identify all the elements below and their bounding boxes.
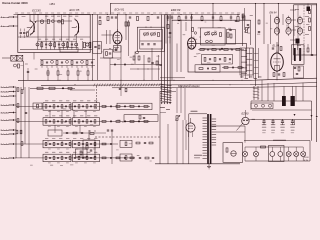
- choke core L2a: [282, 96, 286, 106]
- loudspeaker: [231, 151, 236, 156]
- wire h y101: [251, 100, 312, 102]
- resistor right of T2: [227, 33, 229, 37]
- resistor above EBF89: [192, 28, 197, 35]
- svg-text:Schalter: Schalter: [1, 104, 10, 107]
- wire v x168: [167, 124, 169, 164]
- switch contact unit 2: [286, 16, 291, 26]
- trimmer tuner C2: [52, 20, 55, 23]
- wire v x110: [109, 58, 111, 80]
- wire v x268: [267, 44, 269, 80]
- resistor T2 R: [220, 33, 222, 37]
- lamp La5 (crossed): [301, 147, 306, 161]
- contact strip columns (wave switch): [240, 48, 259, 78]
- potentiometer volume: [244, 27, 250, 33]
- wire band v x29: [28, 87, 30, 158]
- wire v x278.4: [278, 3, 279, 53]
- wire v x160b: [159, 91, 161, 164]
- dark component EM84 base: [296, 39, 300, 51]
- svg-text:Schalter: Schalter: [1, 143, 10, 146]
- wire contact lead: [2, 57, 11, 59]
- inter-row connect wires: [50, 110, 86, 133]
- wire stub contacts: [283, 14, 294, 36]
- wire ECH81 screen riser: [110, 4, 112, 15]
- wire v x186: [185, 22, 187, 31]
- resistor riser R12: [107, 16, 109, 20]
- wire HT right drop: [316, 4, 318, 143]
- tube V4 EL84: [271, 51, 284, 72]
- wire h y69: [130, 68, 160, 71]
- wire out h1: [211, 125, 245, 127]
- output transformer windings: [293, 48, 303, 61]
- resistor mains R18: [261, 146, 266, 148]
- input terminal label 'Schalter 10': [1, 133, 16, 136]
- wire switch col a: [297, 5, 299, 55]
- wire out h2: [216, 131, 245, 133]
- svg-text:Antenne: Antenne: [0, 25, 10, 28]
- wire v x186: [185, 120, 187, 150]
- wire mains feed h: [244, 140, 310, 142]
- resistor R15: [243, 16, 245, 20]
- junction dots top bus: [37, 14, 238, 15]
- wire v x183: [182, 120, 184, 164]
- wire out v x245: [244, 126, 246, 143]
- junction dots HT rail: [110, 3, 279, 4]
- component row AF top: [198, 49, 244, 51]
- capacitor T1 Cc: [153, 44, 155, 45]
- smudges below row4: [30, 165, 73, 167]
- wire lamps bottom rail: [245, 141, 310, 161]
- wire h y48.7: [200, 48, 240, 49]
- svg-text:Schalter: Schalter: [1, 133, 10, 136]
- resistor tuner R2: [62, 20, 64, 24]
- tuned circuit alignment row FM box: [20, 39, 92, 50]
- resistor right margin b: [309, 27, 311, 31]
- svg-text:ECH 81: ECH 81: [115, 8, 125, 12]
- AFC arrow across triode: [27, 21, 37, 34]
- band switch row 4 (TA): [16, 152, 135, 163]
- wire v x270.7: [270, 15, 272, 45]
- box FM tuner unit: [18, 15, 90, 53]
- input terminal label 'Schalter 3': [1, 86, 16, 89]
- wire tuner v x54: [53, 15, 55, 42]
- wire tuner v x38: [37, 15, 39, 42]
- capacitor C13: [109, 48, 117, 51]
- wire T1 mid: [140, 40, 162, 42]
- wire tuner h y21: [36, 20, 72, 22]
- transformer T3 core: [207, 114, 211, 164]
- fuse F2: [253, 147, 258, 161]
- volume control cluster: [83, 130, 95, 158]
- input terminal label 'Schalter 5': [1, 95, 16, 98]
- FM box internal value labels: [22, 16, 79, 17]
- trimmer tuner C1: [40, 20, 43, 23]
- band switch row 2 (LW): [16, 115, 150, 126]
- wire lamps top rail: [245, 146, 303, 148]
- resistor switch R17: [309, 10, 311, 14]
- wire v x92.5: [92, 15, 94, 81]
- tube label ECC85 (b): [70, 8, 80, 12]
- wire AF bus 2: [41, 83, 317, 86]
- wire ECH81 bottom lead: [116, 44, 118, 49]
- box push-button unit: [294, 5, 317, 55]
- input terminal label 'Schalter 7': [1, 112, 16, 115]
- cluster under ECH81: [114, 46, 122, 53]
- wire v x34: [33, 53, 35, 60]
- input terminal label 'Schalter 4': [1, 91, 16, 94]
- capacitor C3/C4 leads: [21, 29, 24, 39]
- wire v x181: [180, 20, 181, 72]
- pot with arrow (hum balance): [175, 115, 180, 120]
- svg-text:Schalter: Schalter: [1, 157, 10, 160]
- wire v x213b: [212, 3, 213, 28]
- tube V1b ECC85 triode 2: [72, 18, 79, 36]
- tube label EZ80: [242, 111, 249, 115]
- wire v x121: [120, 46, 122, 88]
- switch contact unit 4: [274, 26, 279, 36]
- resistor top R11: [99, 20, 101, 24]
- wire v x170: [169, 15, 171, 44]
- resistor right margin a: [309, 18, 311, 22]
- box mixer cluster: [104, 49, 113, 58]
- component block left of row1: [33, 103, 42, 109]
- wire v x177b: [176, 121, 178, 165]
- smudges under bundle: [160, 107, 170, 113]
- dark component top right: [307, 4, 311, 12]
- capacitor mid C14: [157, 17, 159, 18]
- trimmer T1 b: [151, 32, 156, 36]
- svg-text:220V: 220V: [304, 157, 309, 159]
- value label smudges above top bus: [15, 12, 240, 15]
- svg-text:Schalter: Schalter: [1, 91, 10, 94]
- capacitor top C10: [99, 17, 101, 18]
- wire tuner v x30: [29, 15, 31, 23]
- resistor mid R13: [147, 16, 149, 20]
- wire EL84 anode lead: [276, 42, 278, 53]
- wire HT v x311.5: [294, 101, 313, 141]
- svg-text:UB1: UB1: [50, 2, 56, 6]
- wire tuner v x61.5: [61, 15, 63, 42]
- choke core L2b: [291, 96, 295, 106]
- title text Rema Cantat 3000: [2, 1, 28, 5]
- coil below contacts: [14, 64, 20, 68]
- switch contact box S1: [11, 55, 17, 61]
- svg-text:6,3V: 6,3V: [304, 160, 309, 162]
- cluster below EL84: [273, 71, 285, 77]
- capacitor C15: [27, 68, 29, 80]
- contact columns below bus: [253, 86, 259, 100]
- switch contact unit 3: [297, 16, 302, 26]
- wire v x166: [165, 15, 167, 44]
- cluster below out transformer: [294, 66, 304, 78]
- tube label EL84: [273, 43, 280, 47]
- box row1 right extension: [117, 103, 152, 109]
- wire switch col b: [303, 5, 305, 55]
- box IF transformer T1: [137, 27, 164, 51]
- box AF section outer: [188, 44, 247, 73]
- svg-text:EBF 89: EBF 89: [171, 8, 181, 12]
- ferrite antenna rod: [30, 87, 75, 89]
- trimmer T1 a: [144, 32, 149, 36]
- wire v x112b: [111, 130, 113, 164]
- cluster x137-147 y113-121: [139, 115, 145, 119]
- svg-text:Schalter: Schalter: [1, 86, 10, 89]
- capacitor tuner C3: [20, 32, 22, 33]
- wire rectifier output: [249, 118, 311, 121]
- svg-text:Antenne: Antenne: [0, 16, 10, 19]
- wire h y91.3: [160, 90, 176, 92]
- wire h y58: [100, 57, 121, 59]
- capacitor mid C5: [129, 17, 131, 18]
- wire tuner v x34: [33, 15, 35, 23]
- capacitor C16: [169, 32, 171, 33]
- text Klangfarben-Regler: [178, 85, 200, 88]
- selenium rectifier row: [251, 103, 273, 109]
- tube V5 EZ80 rectifier: [237, 110, 250, 131]
- capacitor EL84 Ca: [272, 48, 274, 49]
- box row2 right extension: [124, 115, 158, 122]
- wire v x185: [184, 88, 186, 120]
- tube label ECC85 (a): [32, 8, 41, 12]
- band switch row 1 (MW): [16, 100, 150, 111]
- resistor mid R4: [125, 22, 127, 26]
- wire v x264: [263, 3, 264, 44]
- resistor tuner R1: [47, 19, 49, 23]
- wire v x251: [250, 101, 252, 110]
- coil tuner L1: [58, 20, 61, 23]
- switch contact box S2: [17, 55, 23, 61]
- tube V1a ECC85 triode 1: [27, 20, 35, 36]
- capacitor riser C11: [111, 17, 113, 18]
- text 220V/6.3V: [304, 157, 309, 162]
- input terminal label 'Antenne 1': [0, 16, 18, 19]
- wire v x181b: [180, 85, 182, 113]
- wire v x158.7: [158, 55, 160, 80]
- components right margin: [307, 44, 313, 56]
- wire AF bus 1: [18, 78, 317, 80]
- resistor T1 R: [158, 33, 160, 37]
- component cluster below T1: [133, 51, 162, 65]
- wire band v x25: [24, 87, 26, 144]
- components on left verticals: [15, 87, 27, 158]
- wire V1b lead: [76, 35, 78, 41]
- capacitor right of T2: [229, 29, 231, 30]
- box tone network: [195, 65, 220, 72]
- wire primary loop: [189, 114, 207, 164]
- input terminal label 'Schalter 8': [1, 119, 16, 122]
- cable bundle to controls (hatched): [160, 15, 171, 105]
- svg-text:Rema Cantat 3000: Rema Cantat 3000: [2, 1, 28, 5]
- tube V2 ECH81 heptode-triode: [113, 29, 122, 44]
- wire h y64.5: [110, 63, 160, 66]
- box output transformer: [292, 45, 305, 65]
- label smudge Netzschalter: [273, 139, 286, 142]
- dark smudge row y76-80: [240, 77, 262, 79]
- wire v x255.5: [255, 3, 256, 86]
- wire v x152: [151, 48, 153, 80]
- wire h y77.8: [160, 77, 185, 79]
- wire v x135: [134, 52, 136, 65]
- wire bottom bus: [155, 163, 240, 165]
- input terminal label 'Schalter 12': [1, 157, 16, 160]
- component row AF lower right: [222, 67, 244, 69]
- row3 right boxes: [120, 140, 153, 147]
- anode decoupling components under top bus: [167, 15, 239, 22]
- resistor mid R5: [137, 16, 139, 20]
- wire v x177c: [176, 88, 178, 113]
- wire HT top rail: [111, 3, 317, 5]
- svg-text:EL 84: EL 84: [273, 43, 280, 47]
- svg-text:Schalter: Schalter: [1, 112, 10, 115]
- input terminal label 'Antenne 2': [0, 25, 18, 28]
- box IF transformer T2: [201, 28, 226, 45]
- hanging components under AM row: [47, 68, 89, 81]
- svg-text:ECC85: ECC85: [32, 8, 41, 12]
- capacitor EM84 grid: [258, 31, 260, 32]
- wire v x23.5: [23, 61, 25, 90]
- svg-text:EM 84: EM 84: [270, 12, 278, 15]
- resistor speaker: [226, 148, 228, 152]
- wire switch col c: [311, 5, 313, 55]
- resistor EM84 grid: [258, 20, 260, 24]
- wire choke risers: [262, 80, 303, 101]
- text 220V smudge: [191, 110, 198, 113]
- wire v x177: [176, 44, 178, 73]
- wire tuner mid h: [18, 36, 90, 38]
- components x115-130 y86-93: [119, 86, 127, 96]
- capacitor C17: [235, 20, 237, 21]
- junction dots AM bus: [48, 80, 89, 81]
- box pilot lamps: [269, 146, 285, 162]
- lamp La4 (crossed): [294, 147, 299, 161]
- wire ECH81 grid v: [117, 14, 118, 32]
- ratio detector box: [60, 48, 78, 53]
- input terminal label 'Schalter 11': [1, 143, 16, 146]
- box speaker network: [223, 143, 243, 163]
- tube label EM84: [270, 12, 278, 15]
- transformer T3 windings: [203, 118, 217, 159]
- wire tuner v x46: [45, 15, 47, 42]
- input terminal label 'Schalter 9': [1, 129, 16, 132]
- scattered component value labels (illegible): [20, 15, 289, 161]
- electrolytic capacitor bank: [262, 119, 295, 133]
- svg-text:ECC 85: ECC 85: [70, 8, 80, 12]
- tube label EBF89: [171, 8, 181, 12]
- resistor input R16: [17, 88, 23, 94]
- svg-text:Schalter: Schalter: [1, 129, 10, 132]
- box AF inner with components: [202, 55, 233, 65]
- resistor EL84 Ra: [280, 47, 282, 51]
- switch contact unit 6: [297, 26, 302, 36]
- box osc coil below: [93, 42, 102, 54]
- svg-text:Schalter: Schalter: [1, 119, 10, 122]
- resistor R14: [167, 24, 169, 28]
- box T2 second section: [227, 30, 236, 45]
- switch contact unit 1: [274, 16, 279, 26]
- band switch row 3 (KW): [16, 138, 118, 149]
- wire dashed AF link: [95, 136, 160, 138]
- capacitor riser C12: [115, 17, 117, 18]
- lamp La1: [270, 147, 275, 161]
- row4 right boxes: [120, 154, 154, 161]
- lamp La2: [278, 147, 283, 161]
- svg-text:Schalter: Schalter: [1, 95, 10, 98]
- lamp La3 (crossed): [286, 147, 291, 161]
- wire EBF89 anode: [191, 14, 192, 38]
- wire v x97.7: [97, 15, 99, 81]
- tube V6 triode (phase splitter): [186, 118, 195, 137]
- hatched wire band along bus: [70, 84, 160, 110]
- switch contact unit 5: [286, 26, 291, 36]
- junction dots on buses: [60, 80, 243, 86]
- wire tuner v x69: [68, 15, 70, 42]
- wire v x242.5: [242, 15, 244, 47]
- wires left of ECH81: [101, 30, 113, 44]
- capacitor T1 Cb: [147, 44, 149, 45]
- wire AF bus 3: [112, 86, 317, 88]
- box AM/AF module outline: [172, 20, 251, 80]
- wire band v x16: [15, 87, 17, 158]
- trimmer T2 b: [212, 32, 217, 37]
- wire band v x21: [20, 87, 22, 158]
- AM IF / ratio detector component row: [40, 60, 95, 68]
- capacitor T1 Ca: [141, 44, 143, 45]
- text 6.3V smudges: [194, 155, 202, 158]
- wire main top bus: [14, 14, 241, 16]
- box IF T1 inner: [140, 27, 163, 49]
- wire EL84 cathode to bus: [276, 71, 278, 80]
- wire h y110: [252, 109, 312, 111]
- contact strip left column: [242, 8, 249, 30]
- smudges right box: [295, 9, 309, 46]
- input terminal label 'Schalter 6': [1, 104, 16, 107]
- wire v x128.4: [127, 20, 129, 56]
- fuse F1: [242, 147, 247, 161]
- components y133 row: [16, 130, 113, 136]
- small box between rows: [76, 149, 88, 157]
- wire v x144: [143, 55, 145, 80]
- sheet label UB1: [50, 2, 56, 6]
- tube V3 EBF89: [188, 35, 196, 49]
- capacitor tuner C4: [23, 32, 25, 33]
- trimmer T2 a: [205, 32, 210, 37]
- tube label ECH81: [115, 8, 125, 12]
- ground at transformer: [207, 164, 211, 169]
- wire v x126: [125, 15, 127, 41]
- resistor tuner R3: [27, 32, 29, 36]
- wire stubs into switch box: [290, 10, 296, 40]
- coil T2: [206, 40, 213, 43]
